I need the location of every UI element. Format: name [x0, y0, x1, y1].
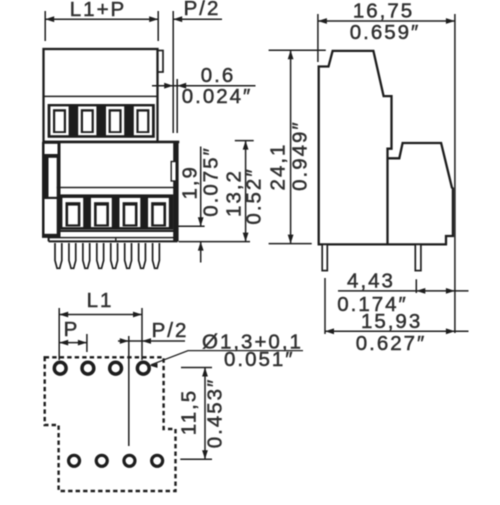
dimension L1+P line	[45, 18, 158, 20]
footprint dashed outline	[45, 357, 176, 491]
front view solder pin 7	[139, 243, 146, 268]
footprint top row hole 2	[82, 362, 94, 374]
front view lower clamp opening 3 outer white ring	[120, 198, 141, 227]
front view solder pin 3	[83, 243, 90, 268]
front view base center tick	[115, 238, 117, 242]
front view lower clamp opening 4 inner dark frame	[151, 202, 166, 226]
svg-text:4,43: 4,43	[347, 270, 395, 293]
svg-text:0.6: 0.6	[201, 64, 236, 87]
dimension P extension line right	[86, 334, 88, 352]
dimension 1.9 line lower	[200, 242, 202, 263]
front view upper clamp opening 3 white center	[111, 112, 120, 132]
svg-text:0.627″: 0.627″	[356, 332, 427, 355]
front view upper clamp opening 2 outer white ring	[78, 106, 96, 135]
svg-text:P/2: P/2	[152, 319, 189, 342]
front view lower housing left latch notch	[49, 158, 57, 197]
front view solder pin 8	[153, 243, 160, 268]
dimension L1 line	[59, 314, 142, 316]
dimension 24.1 arrow up	[288, 50, 294, 59]
front view lower housing right latch notch	[171, 162, 176, 182]
front view lower housing right notch outline	[171, 162, 176, 182]
dimension 11.5 tick bottom	[180, 458, 212, 460]
footprint centerline	[128, 336, 130, 446]
svg-text:11,5: 11,5	[178, 389, 201, 435]
dimension P line	[59, 342, 87, 344]
footprint bottom row hole 3	[124, 455, 135, 466]
svg-text:0.949″: 0.949″	[289, 120, 312, 191]
front view solder pin 6	[125, 243, 132, 268]
front view upper clamp opening 1 inner dark frame	[53, 109, 66, 133]
front view upper clamp opening 4 white center	[139, 112, 148, 132]
svg-text:0.051″: 0.051″	[224, 348, 295, 371]
front view lower housing inner horizontal line	[57, 187, 174, 189]
dimension P/2 arrow left	[120, 338, 129, 344]
dimension L1 extension line left	[58, 308, 60, 360]
front view solder pin 5	[111, 243, 118, 268]
front view lower clamp opening 3 white center	[125, 206, 135, 225]
front view upper clamp opening 4 outer white ring	[134, 106, 152, 135]
dimension 16.75 arrow right	[446, 18, 455, 24]
front view upper clamp opening 3 inner dark frame	[109, 109, 122, 133]
dimension 11.5 arrow down	[202, 450, 208, 459]
dimension 4.43 line	[338, 290, 469, 292]
front view bottom edge	[49, 240, 178, 242]
front view base upper line	[60, 230, 178, 232]
dimension L1 arrow right	[133, 312, 142, 318]
dimension 16.75 arrow left	[318, 18, 327, 24]
dimension 1.9 line upper	[200, 147, 202, 227]
dimension P/2 top line	[173, 18, 222, 20]
footprint bottom row hole 4	[152, 455, 163, 466]
front view upper clamp opening 1 white center	[55, 112, 64, 132]
dimension P/2 top extension line	[172, 11, 174, 133]
dimension 11.5 line	[204, 368, 206, 460]
front view lower clamp opening 3 inner dark frame	[123, 202, 138, 226]
svg-text:L1+P: L1+P	[70, 0, 126, 21]
side view left solder pin	[322, 244, 327, 270]
dimension L1 arrow left	[59, 312, 68, 318]
dimension 1.9 tick bottom long	[179, 241, 250, 243]
front view lower clamp opening 1 inner dark frame	[66, 202, 81, 226]
front view lower clamp opening 1 white center	[68, 206, 78, 225]
dimension 24.1 tick bottom	[269, 243, 312, 245]
front view lower housing left dark column	[42, 142, 61, 238]
dimension 15.93 line	[325, 330, 469, 332]
svg-text:0.659″: 0.659″	[350, 21, 421, 44]
front view lower clamp opening 4 white center	[154, 206, 164, 225]
front view upper housing inner horizontal line	[44, 95, 157, 97]
dimension 13.2 line	[245, 141, 247, 242]
front view upper clamp opening 3 outer white ring	[106, 106, 124, 135]
dimension 11.5 arrow up	[202, 368, 208, 377]
dimension 13.2 arrow up	[243, 141, 249, 150]
dimension P arrow right	[78, 340, 87, 346]
dimension 0.6 line	[152, 85, 256, 87]
dimension P/2 arrow right	[142, 338, 151, 344]
dimension 4.43 extension line left	[415, 279, 417, 293]
front view solder pin 4	[97, 243, 104, 268]
front view lower clamp row dark band	[57, 194, 173, 229]
svg-text:P/2: P/2	[184, 0, 221, 20]
front view upper housing top-right latch strip	[158, 51, 164, 73]
front view lower clamp opening 2 outer white ring	[91, 198, 112, 227]
dimension L1+P extension line right	[157, 11, 159, 41]
svg-text:0.024″: 0.024″	[182, 85, 253, 108]
dimension 13.2 arrow down	[243, 233, 249, 242]
dimension 0.6 arrow left	[164, 83, 173, 89]
dimension L1+P arrow left	[45, 16, 54, 22]
footprint top row hole 1	[54, 362, 66, 374]
hole diameter leader arrow	[150, 363, 158, 368]
dimension P/2 line	[118, 340, 185, 342]
dimension 1.9 arrow up	[198, 242, 204, 251]
footprint bottom row hole 1	[69, 455, 80, 466]
front view lower housing left edge lower part	[48, 234, 50, 241]
svg-text:24,1: 24,1	[267, 143, 290, 191]
dimension P arrow left	[59, 340, 68, 346]
dimension 15.93 arrow left	[325, 328, 334, 334]
svg-text:L1: L1	[87, 289, 114, 312]
dimension 15.93 extension line left	[324, 278, 326, 334]
footprint top row hole 4	[137, 362, 149, 374]
dimension 4.43 arrow left	[416, 288, 425, 294]
footprint bottom row hole 2	[96, 455, 107, 466]
front view upper clamp opening 4 inner dark frame	[136, 109, 149, 133]
svg-text:0.075″: 0.075″	[200, 146, 223, 217]
front view lower clamp opening 2 inner dark frame	[94, 202, 109, 226]
front view upper housing outline	[44, 49, 158, 142]
dimension 1.9 arrow down	[198, 217, 204, 226]
svg-text:P: P	[64, 318, 80, 341]
front view lower housing left column white box bottom	[45, 199, 57, 234]
front view solder pin 1	[55, 243, 62, 268]
svg-text:16,75: 16,75	[353, 0, 414, 23]
hole diameter leader line	[151, 351, 303, 365]
front view upper clamp opening 2 white center	[83, 112, 92, 132]
front view base lower line	[49, 237, 178, 239]
front view lower housing top edge	[43, 141, 179, 144]
svg-text:0.453″: 0.453″	[204, 378, 227, 449]
dimension 16.75 line	[318, 20, 455, 22]
front view lower housing right dark column	[173, 142, 178, 242]
dimension 13.2 tick top	[235, 140, 254, 142]
dimension L1+P arrow right	[149, 16, 158, 22]
dimension L1+P extension line left	[44, 11, 46, 41]
dimension 0.6 arrow right	[177, 83, 186, 89]
side view right solder pin	[415, 244, 421, 270]
svg-text:15,93: 15,93	[361, 310, 422, 333]
dimension 11.5 tick top	[181, 367, 212, 369]
dimension 15.93 arrow right	[446, 328, 455, 334]
front view upper clamp row dark band	[48, 104, 155, 138]
dimension L1 extension line right	[141, 308, 143, 360]
front view lower clamp opening 2 white center	[97, 206, 107, 225]
front view lower clamp opening 1 outer white ring	[62, 198, 83, 227]
dimension P/2 top arrow	[173, 16, 182, 22]
dimension 24.1 tick top	[269, 49, 326, 51]
dimension 16.75 extension line left	[317, 14, 319, 62]
dimension 0.6 extension line right	[176, 79, 178, 133]
dimension 24.1 line	[290, 50, 292, 243]
front view lower clamp opening 4 outer white ring	[148, 198, 169, 227]
dimension 4.43 arrow right	[446, 288, 455, 294]
front view lower housing left column white box top	[45, 144, 58, 154]
dimension 16.75 extension line right	[454, 14, 456, 333]
side view housing profile	[318, 51, 453, 245]
footprint top row hole 3	[110, 362, 122, 374]
dimension 1.9 tick top	[175, 225, 205, 227]
front view solder pin 2	[69, 243, 76, 268]
dimension 24.1 arrow down	[288, 235, 294, 244]
svg-text:0.52″: 0.52″	[243, 167, 266, 224]
front view upper clamp opening 2 inner dark frame	[81, 109, 94, 133]
svg-text:1,9: 1,9	[179, 165, 202, 200]
front view upper clamp opening 1 outer white ring	[50, 106, 68, 135]
